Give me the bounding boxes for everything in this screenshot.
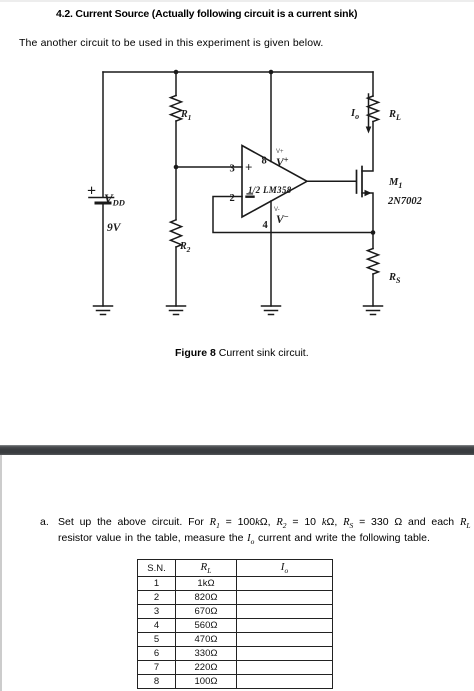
circuit schematic bbox=[0, 0, 474, 360]
ground (pin4) bbox=[262, 306, 281, 315]
transistor M1 gate bar bbox=[356, 171, 358, 194]
svg-text:8: 8 bbox=[262, 156, 267, 167]
svg-text:1/2 LM358: 1/2 LM358 bbox=[248, 185, 292, 195]
node dot rail/pin8 bbox=[269, 70, 274, 75]
svg-text:M1: M1 bbox=[388, 177, 402, 190]
svg-text:Io: Io bbox=[350, 108, 359, 121]
wire node A to R2 bbox=[175, 167, 177, 220]
svg-text:4: 4 bbox=[263, 220, 269, 231]
top rail wire bbox=[103, 71, 373, 73]
wire op-amp output to gate bbox=[307, 180, 356, 182]
wire R1 to node A bbox=[175, 121, 177, 167]
svg-text:V−: V− bbox=[276, 212, 289, 227]
svg-text:+: + bbox=[87, 183, 96, 200]
feedback wire source node to pin 2 bbox=[213, 197, 373, 233]
ground (RS) bbox=[364, 306, 383, 315]
heading line bbox=[56, 8, 416, 20]
resistor R2 bbox=[171, 220, 182, 247]
svg-text:9V: 9V bbox=[107, 222, 122, 234]
ground (battery) bbox=[94, 306, 113, 315]
node dot rail/R1 bbox=[174, 70, 179, 75]
wire R2 to ground bbox=[175, 247, 177, 306]
wire battery to ground bbox=[102, 205, 104, 307]
Io current arrow bbox=[368, 94, 370, 128]
svg-text:+: + bbox=[245, 160, 252, 175]
left page edge line bbox=[0, 455, 2, 691]
svg-text:V+: V+ bbox=[276, 155, 289, 170]
underline under 1/2 bbox=[247, 193, 253, 195]
svg-text:R1: R1 bbox=[180, 109, 191, 122]
data table bbox=[137, 559, 333, 689]
battery VDD bbox=[89, 198, 114, 204]
wire node to RS bbox=[372, 233, 374, 249]
op-amp minus input sign bbox=[247, 195, 254, 197]
svg-text:RL: RL bbox=[388, 109, 401, 122]
transistor M1 channel bar bbox=[361, 167, 363, 197]
resistor R1 bbox=[171, 96, 182, 122]
resistor RL bbox=[368, 96, 379, 122]
wire rail to RL bbox=[372, 72, 374, 96]
svg-text:2: 2 bbox=[230, 193, 235, 204]
wire left vertical (VDD to rail) bbox=[102, 72, 104, 197]
wire rail to pin 8 bbox=[270, 72, 272, 162]
M1 source arrowhead bbox=[365, 190, 372, 197]
svg-text:3: 3 bbox=[230, 164, 235, 175]
svg-text:V-: V- bbox=[274, 207, 280, 213]
svg-text:2N7002: 2N7002 bbox=[387, 196, 423, 207]
faint top page edge bbox=[0, 0, 474, 2]
paragraph a. bbox=[40, 513, 472, 515]
intro line bbox=[19, 37, 323, 49]
resistor RS bbox=[368, 249, 379, 275]
M1 source wire bbox=[362, 193, 373, 233]
M1 drain wire bbox=[362, 122, 373, 172]
node A dot bbox=[174, 165, 179, 170]
svg-text:R2: R2 bbox=[179, 241, 191, 254]
wire RS to ground bbox=[372, 274, 374, 306]
svg-text:VDD: VDD bbox=[104, 191, 125, 208]
wire pin 4 to ground bbox=[270, 201, 272, 306]
wire node A to pin 3 bbox=[176, 166, 242, 168]
svg-text:RS: RS bbox=[388, 272, 401, 285]
node dot source/RS/feedback bbox=[371, 230, 376, 235]
wire rail to R1 bbox=[175, 72, 177, 96]
ground (R2) bbox=[167, 306, 186, 315]
figure caption bbox=[175, 347, 309, 359]
dark page-break band bbox=[0, 445, 474, 455]
op-amp U1 triangle bbox=[242, 146, 307, 218]
